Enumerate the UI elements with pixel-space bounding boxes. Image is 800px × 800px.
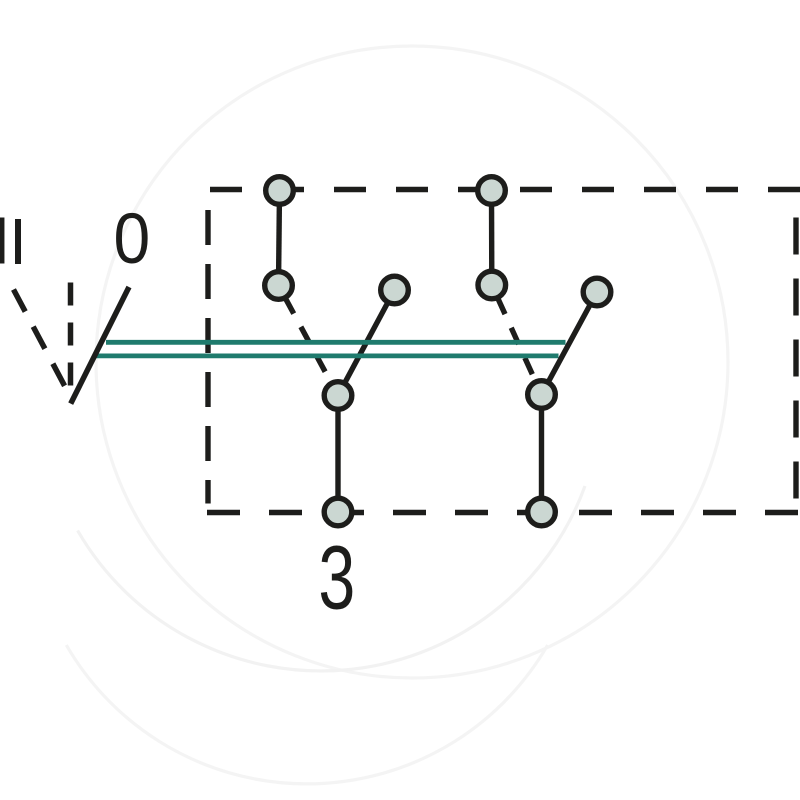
svg-text:0: 0: [113, 199, 150, 279]
svg-text:3: 3: [318, 527, 355, 628]
